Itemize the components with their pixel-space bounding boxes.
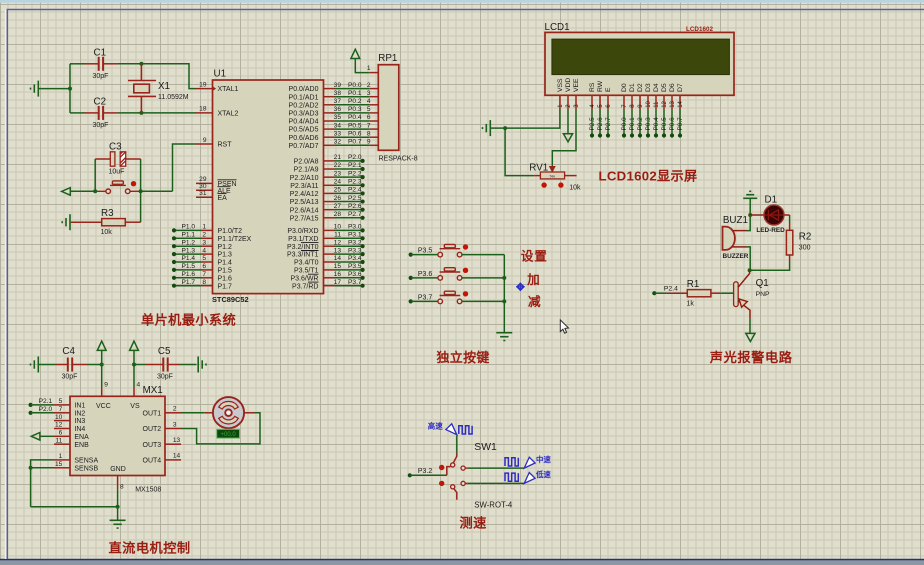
svg-text:P2.1/A9: P2.1/A9: [294, 167, 319, 174]
RP1 pin 7 stub: [370, 128, 379, 130]
wire button ground rail: [503, 255, 505, 333]
svg-text:P3.5/T1: P3.5/T1: [294, 268, 319, 275]
svg-text:P1.5: P1.5: [218, 268, 233, 275]
svg-text:C4: C4: [62, 346, 75, 357]
U1 pin 4 P1.3 stub: [201, 253, 213, 255]
svg-text:PNP: PNP: [756, 291, 770, 298]
LCD pin 7 stub: [623, 95, 625, 109]
wire net P2.6: [335, 209, 363, 211]
svg-text:IN3: IN3: [74, 418, 85, 425]
svg-text:9: 9: [203, 137, 207, 144]
svg-text:31: 31: [199, 190, 207, 197]
SW1 pole contact: [451, 463, 455, 467]
wire button P3.6 to rail: [462, 277, 504, 279]
SW1 pole lead: [454, 453, 457, 463]
resistor R2: [786, 230, 792, 255]
svg-text:BUZZER: BUZZER: [723, 253, 749, 260]
svg-text:VCC: VCC: [96, 403, 111, 410]
power arrow (VCC): [97, 341, 106, 350]
svg-text:6: 6: [59, 430, 63, 437]
svg-text:P3.4: P3.4: [348, 255, 362, 262]
svg-text:P0.2: P0.2: [348, 98, 362, 105]
svg-text:VDD: VDD: [565, 78, 572, 92]
capacitor C4 leads: [56, 364, 68, 366]
LCD pin 9 stub: [639, 95, 641, 109]
svg-text:SW1: SW1: [474, 442, 497, 453]
U1 pin 19 XTAL1 stub: [196, 88, 213, 90]
red actuator dot (SW1 down): [439, 481, 444, 486]
svg-text:35: 35: [334, 114, 342, 121]
node P2.1: [361, 167, 365, 171]
RP1 pin 3 stub: [370, 96, 379, 98]
node P3.5: [361, 268, 365, 272]
wire to ground (LCD): [491, 127, 506, 129]
LCD pin 8 stub: [631, 95, 633, 109]
svg-text:39: 39: [334, 82, 342, 89]
svg-text:P2.6: P2.6: [348, 203, 362, 210]
resistor R3 leads: [71, 221, 102, 223]
svg-text:P3.6/WR: P3.6/WR: [290, 275, 318, 282]
svg-text:P0.5: P0.5: [348, 122, 362, 129]
U1 pin 24 P2.3/A11 stub: [324, 184, 335, 186]
node P2.5: [590, 133, 594, 137]
node P1.2: [172, 244, 176, 248]
svg-text:RP1: RP1: [378, 53, 397, 64]
svg-text:P0.3: P0.3: [645, 117, 652, 131]
svg-text:R1: R1: [687, 279, 700, 290]
power arrow (RP1): [351, 49, 360, 58]
potentiometer RV1 leads: [534, 175, 540, 177]
wire VEE to RV1 wiper: [552, 109, 576, 165]
node P2.1: [29, 403, 33, 407]
node P0.0 (LCD): [622, 133, 626, 137]
svg-text:7: 7: [59, 406, 63, 413]
svg-text:12: 12: [334, 239, 342, 246]
svg-text:P2.5/A13: P2.5/A13: [290, 199, 319, 206]
capacitor C1 leads: [85, 63, 99, 65]
svg-text:P2.0/A8: P2.0/A8: [294, 159, 319, 166]
svg-text:U1: U1: [214, 69, 227, 80]
MX1 pin 5 IN1 stub: [54, 404, 70, 406]
svg-text:30pF: 30pF: [93, 122, 109, 129]
svg-text:6: 6: [367, 114, 371, 121]
junction X1 bottom: [139, 111, 143, 115]
svg-text:17: 17: [334, 279, 342, 286]
svg-text:C1: C1: [94, 48, 107, 59]
push button (P3.6): [438, 268, 462, 281]
svg-text:P2.4/A12: P2.4/A12: [290, 191, 319, 198]
svg-text:Q1: Q1: [756, 278, 769, 289]
svg-text:34: 34: [334, 122, 342, 129]
wire P0.3 to RP1: [335, 112, 370, 114]
wire middle throw: [465, 467, 467, 469]
transistor Q1 PNP: [734, 282, 739, 307]
svg-text:7: 7: [202, 271, 206, 278]
junction buttons 2: [502, 299, 506, 303]
origin marker (blue crosshair): [516, 283, 524, 291]
wire net P3.7: [335, 285, 363, 287]
MX1 pin 3 OUT2 stub: [165, 428, 181, 430]
svg-text:设置: 设置: [521, 250, 548, 264]
red actuator dot (reset button): [131, 181, 136, 186]
svg-text:3: 3: [202, 239, 206, 246]
wire VDD: [567, 109, 569, 134]
svg-text:22: 22: [334, 162, 342, 169]
svg-text:P1.7: P1.7: [182, 279, 196, 286]
wire arrow to button: [70, 190, 95, 192]
node P3.7: [409, 299, 413, 303]
svg-text:+00.0: +00.0: [221, 432, 237, 438]
svg-text:P0.6: P0.6: [669, 117, 676, 131]
svg-text:OUT3: OUT3: [143, 442, 162, 449]
ground arrow (reset): [62, 188, 71, 196]
node P3.6: [361, 276, 365, 280]
svg-text:LED-RED: LED-RED: [756, 227, 785, 234]
svg-text:VSS: VSS: [557, 78, 564, 92]
svg-text:P2.2/A10: P2.2/A10: [290, 175, 319, 182]
svg-text:P2.7: P2.7: [348, 211, 362, 218]
svg-text:2: 2: [367, 82, 371, 89]
wire P0.0 to RP1: [335, 88, 370, 90]
svg-text:RW: RW: [597, 80, 604, 92]
U1 pin 34 P0.5/AD5 stub: [324, 128, 335, 130]
svg-text:P0.1/AD1: P0.1/AD1: [289, 94, 319, 101]
U1 pin 31 EA stub: [196, 196, 213, 198]
motor driver MX1 body: [70, 396, 165, 475]
U1 pin 2 P1.1/T2EX stub: [201, 237, 213, 239]
wire net P2.3: [335, 184, 363, 186]
LCD pin 6 stub: [607, 95, 609, 109]
svg-text:SENSA: SENSA: [74, 458, 98, 465]
node P1.6: [172, 276, 176, 280]
wire ENA: [40, 435, 54, 437]
MX1 pin 4 VS stub: [133, 388, 135, 397]
wire net P2.5: [335, 201, 363, 203]
push button (P3.5): [438, 244, 462, 257]
ground arrow (Q1): [746, 333, 755, 341]
svg-text:P1.6: P1.6: [182, 271, 196, 278]
svg-text:5: 5: [59, 398, 63, 405]
LCD pin 4 stub: [591, 95, 593, 109]
LCD screen: [552, 39, 730, 75]
svg-text:SENSB: SENSB: [74, 465, 98, 472]
U1 pin 29 PSEN stub: [196, 182, 213, 184]
ground (LCD): [483, 120, 491, 136]
wire net P2.1: [335, 168, 363, 170]
wire net P0.0 (LCD): [623, 109, 625, 136]
svg-text:OUT2: OUT2: [143, 426, 162, 433]
svg-text:C3: C3: [109, 142, 122, 153]
ground (buttons): [496, 333, 512, 341]
svg-text:P1.7: P1.7: [218, 283, 233, 290]
wire net P2.6: [599, 109, 601, 136]
svg-text:P2.4: P2.4: [348, 187, 362, 194]
svg-text:D6: D6: [669, 83, 676, 92]
wire VSS to ground: [505, 109, 560, 128]
svg-text:11: 11: [55, 437, 62, 444]
svg-text:VS: VS: [130, 403, 140, 410]
node P3.5: [409, 253, 413, 257]
wire button P3.5 to rail: [462, 254, 504, 256]
wire C3 right down: [140, 159, 142, 191]
U1 pin 21 P2.0/A8 stub: [324, 160, 335, 162]
node P3.7: [361, 284, 365, 288]
capacitor C3 leads: [95, 158, 110, 160]
svg-text:P1.4: P1.4: [182, 255, 196, 262]
wire net P3.5: [335, 269, 363, 271]
MX1 pin 11 ENB stub: [54, 443, 70, 445]
junction X1 top: [139, 62, 143, 66]
svg-text:P3.5: P3.5: [418, 248, 433, 255]
wire net P0.6 (LCD): [671, 109, 673, 136]
wire net P1.4: [174, 261, 201, 263]
motor speed display: [217, 429, 240, 438]
wire SENSA rail: [31, 460, 54, 507]
LCD pin 11 stub: [655, 95, 657, 109]
node P3.1: [361, 236, 365, 240]
svg-text:P1.4: P1.4: [218, 260, 233, 267]
svg-text:P2.3: P2.3: [348, 178, 362, 185]
wire net P2.1: [31, 404, 54, 406]
node P2.4: [652, 291, 656, 295]
wire net P0.5 (LCD): [663, 109, 665, 136]
U1 pin 3 P1.2 stub: [201, 245, 213, 247]
node P2.0: [361, 159, 365, 163]
svg-text:28: 28: [334, 211, 342, 218]
svg-text:D5: D5: [661, 83, 668, 92]
svg-text:LCD1: LCD1: [545, 22, 570, 33]
SW1 throw contact 1: [461, 466, 465, 470]
wire R3 up to button: [140, 191, 142, 222]
wire OUT1 to motor: [181, 412, 205, 414]
svg-text:7: 7: [367, 122, 371, 129]
svg-text:IN1: IN1: [74, 403, 85, 410]
node P3.4: [361, 260, 365, 264]
Q1 collector lead: [738, 270, 749, 287]
U1 pin 37 P0.2/AD2 stub: [324, 104, 335, 106]
svg-text:ENB: ENB: [74, 442, 89, 449]
svg-text:D1: D1: [765, 195, 778, 206]
junction reset right: [139, 189, 143, 193]
svg-text:30pF: 30pF: [157, 374, 173, 381]
wire P3.7 to button: [411, 300, 438, 302]
svg-text:P2.4: P2.4: [664, 286, 678, 293]
wire C1 to XTAL1: [118, 64, 196, 89]
wire R2 to collector node: [750, 262, 790, 270]
junction GND node: [116, 505, 120, 509]
svg-text:R3: R3: [101, 208, 114, 219]
wire net P3.1: [335, 237, 363, 239]
svg-text:P1.2: P1.2: [182, 239, 196, 246]
svg-text:P3.2: P3.2: [348, 239, 362, 246]
svg-text:37: 37: [334, 98, 342, 105]
LCD pin 14 stub: [679, 95, 681, 109]
U1 pin 15 P3.5/T1 stub: [324, 269, 335, 271]
wire P2.4 to R1: [654, 292, 667, 294]
red actuator dot (P3.6 button): [463, 268, 468, 273]
U1 pin 33 P0.6/AD6 stub: [324, 136, 335, 138]
wire to C1: [70, 63, 85, 65]
U1 pin 39 P0.0/AD0 stub: [324, 88, 335, 90]
junction reset left: [93, 189, 97, 193]
power (alarm): [743, 191, 757, 198]
U1 pin 27 P2.6/A14 stub: [324, 209, 335, 211]
svg-text:32: 32: [334, 139, 342, 146]
waveform 高速: [459, 426, 472, 434]
wire net P3.2: [335, 245, 363, 247]
MX1 pin 12 IN4 stub: [54, 428, 70, 430]
capacitor C1: [99, 57, 103, 71]
svg-text:18: 18: [199, 106, 207, 113]
svg-text:10: 10: [646, 100, 652, 107]
node P1.5: [172, 268, 176, 272]
wire net P1.2: [174, 245, 201, 247]
svg-text:低速: 低速: [535, 470, 551, 479]
svg-text:P0.0: P0.0: [348, 82, 362, 89]
svg-text:14: 14: [678, 100, 684, 107]
svg-text:LCD1602: LCD1602: [686, 26, 713, 33]
junction LED node: [748, 213, 752, 217]
svg-text:D4: D4: [653, 83, 660, 92]
wire C4 to VCC rail: [88, 364, 102, 366]
svg-text:P2.1: P2.1: [348, 162, 362, 169]
node P2.2: [361, 175, 365, 179]
svg-text:P2.0: P2.0: [39, 406, 53, 413]
wire power to VCC pin: [101, 350, 103, 387]
MX1 pin 13 OUT3 stub: [165, 443, 181, 445]
svg-text:P3.3/INT1: P3.3/INT1: [287, 252, 319, 259]
svg-text:STC89C52: STC89C52: [212, 295, 249, 304]
svg-text:MX1508: MX1508: [135, 487, 161, 494]
wire net P0.4 (LCD): [655, 109, 657, 136]
svg-text:3: 3: [367, 90, 371, 97]
svg-text:D2: D2: [637, 83, 644, 92]
wire P0.5 to RP1: [335, 128, 370, 130]
svg-text:21: 21: [334, 154, 342, 161]
wire P3.2: [410, 474, 447, 476]
U1 pin 35 P0.4/AD4 stub: [324, 120, 335, 122]
junction buttons 1: [502, 276, 506, 280]
svg-text:P1.1: P1.1: [182, 232, 196, 239]
svg-text:30pF: 30pF: [93, 73, 109, 80]
svg-text:3: 3: [173, 421, 177, 428]
wire gnd to C rail: [38, 88, 70, 90]
svg-text:SW-ROT-4: SW-ROT-4: [474, 501, 513, 510]
svg-text:10k: 10k: [569, 185, 581, 192]
svg-text:4: 4: [367, 98, 371, 105]
node P2.7: [361, 216, 365, 220]
svg-text:P1.5: P1.5: [182, 263, 196, 270]
wire net P2.0: [335, 160, 363, 162]
svg-text:P2.5: P2.5: [348, 195, 362, 202]
U1 pin 38 P0.1/AD1 stub: [324, 96, 335, 98]
wire gnd to C4: [38, 364, 56, 366]
RP1 pin 4 stub: [370, 104, 379, 106]
svg-text:1: 1: [59, 453, 63, 460]
red actuator dot (RV1 plus): [558, 182, 563, 187]
svg-text:23: 23: [334, 170, 342, 177]
wire ground rail to RV1: [505, 128, 534, 176]
svg-text:OUT4: OUT4: [143, 458, 162, 465]
wire OUT2 to motor: [181, 413, 260, 444]
node P2.0: [29, 411, 33, 415]
U1 pin 11 P3.1/TXD stub: [324, 237, 335, 239]
U1 pin 16 P3.6/WR stub: [324, 277, 335, 279]
U1 pin 23 P2.2/A10 stub: [324, 176, 335, 178]
svg-text:25: 25: [334, 187, 342, 194]
MX1 pin 15 SENSB stub: [54, 467, 70, 469]
wire to C2: [70, 112, 85, 114]
SW1 unused throw lead: [454, 489, 457, 500]
svg-text:测速: 测速: [460, 515, 488, 531]
diode D1 LED-RED: [764, 205, 784, 225]
wire net P3.3: [335, 253, 363, 255]
wire bottom throw: [465, 482, 467, 484]
svg-text:P2.6/A14: P2.6/A14: [290, 207, 319, 214]
svg-text:单片机最小系统: 单片机最小系统: [141, 312, 236, 328]
svg-text:D3: D3: [645, 83, 652, 92]
svg-text:P1.3: P1.3: [182, 247, 196, 254]
svg-text:5: 5: [202, 255, 206, 262]
wire net P0.2 (LCD): [639, 109, 641, 136]
svg-text:C2: C2: [94, 97, 107, 108]
U1 pin 22 P2.1/A9 stub: [324, 168, 335, 170]
svg-text:5: 5: [367, 106, 371, 113]
capacitor C2 leads: [85, 112, 99, 114]
svg-text:14: 14: [334, 255, 342, 262]
svg-text:4: 4: [202, 247, 206, 254]
svg-text:27: 27: [334, 203, 342, 210]
MX1 pin 1 SENSA stub: [54, 459, 70, 461]
svg-text:P3.1/TXD: P3.1/TXD: [288, 236, 318, 243]
svg-text:XTAL1: XTAL1: [218, 86, 239, 93]
svg-text:2: 2: [202, 232, 206, 239]
svg-text:P1.3: P1.3: [218, 252, 233, 259]
MX1 pin 9 VCC stub: [101, 388, 103, 397]
svg-text:9: 9: [367, 139, 371, 146]
svg-text:P2.7/A15: P2.7/A15: [290, 215, 319, 222]
push button (P3.7): [438, 291, 462, 304]
node P3.0: [361, 228, 365, 232]
top window band: [0, 0, 924, 3]
svg-text:P0.6: P0.6: [348, 130, 362, 137]
svg-text:15: 15: [334, 263, 342, 270]
Q1 emitter lead with arrow: [738, 301, 750, 319]
svg-text:X1: X1: [158, 81, 170, 92]
RP1 pin 8 stub: [370, 136, 379, 138]
svg-text:RESPACK-8: RESPACK-8: [379, 156, 418, 163]
wire net P0.7 (LCD): [679, 109, 681, 136]
wire net P1.5: [174, 269, 201, 271]
svg-text:26: 26: [334, 195, 342, 202]
wire LED to R2: [789, 215, 791, 224]
wire C5 to ground: [180, 364, 196, 366]
wire net P3.0: [335, 229, 363, 231]
svg-text:高速: 高速: [428, 422, 443, 431]
crystal X1: [128, 64, 156, 113]
bottom window band: [0, 561, 924, 565]
wire buzzer to collector node: [747, 247, 751, 270]
wire P3.5 to button: [411, 254, 438, 256]
wire net P2.4: [335, 192, 363, 194]
svg-text:ENA: ENA: [74, 434, 89, 441]
mouse cursor arrow: [560, 320, 568, 333]
MX1 pin 7 IN2 stub: [54, 412, 70, 414]
node P3.3: [361, 252, 365, 256]
svg-text:11: 11: [654, 101, 660, 108]
resistor R2 leads: [789, 224, 791, 231]
sheet border: [5, 10, 7, 560]
